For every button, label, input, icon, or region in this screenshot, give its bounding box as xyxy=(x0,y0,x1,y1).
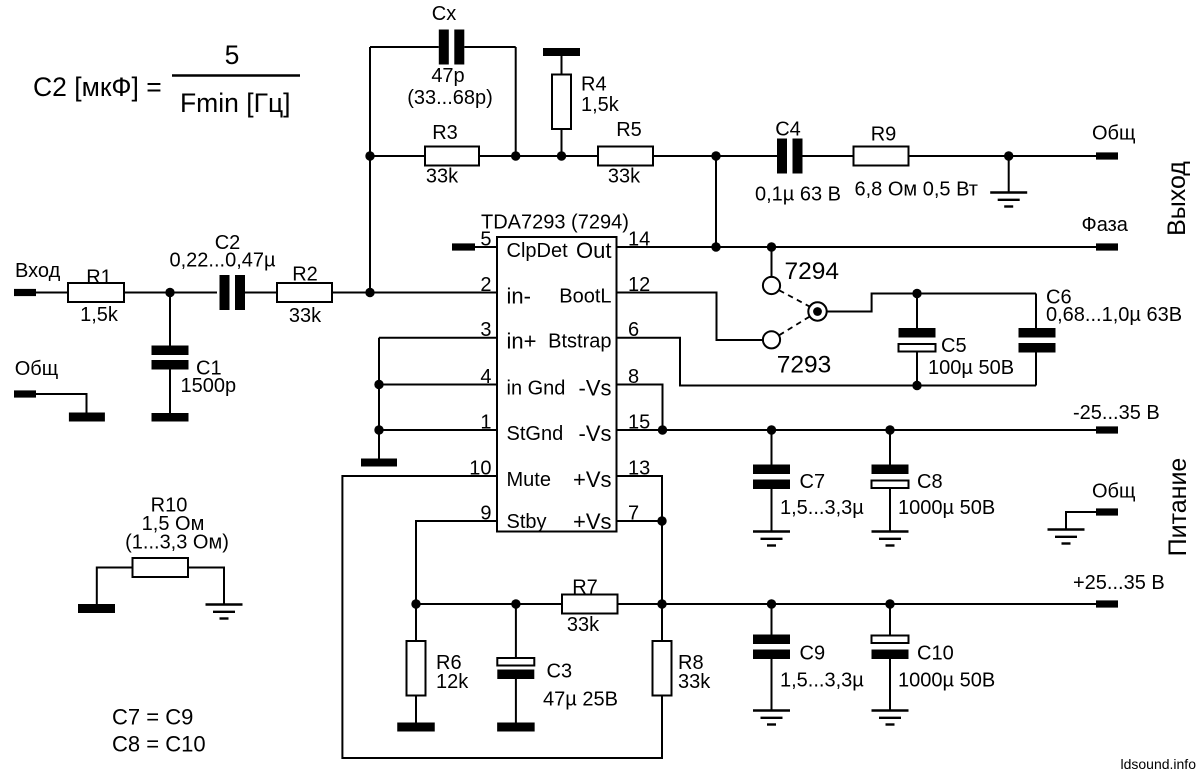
svg-text:1,5k: 1,5k xyxy=(581,94,620,116)
svg-text:1500p: 1500p xyxy=(181,375,237,397)
svg-text:R7: R7 xyxy=(572,577,598,599)
svg-text:33k: 33k xyxy=(426,166,459,188)
svg-text:5: 5 xyxy=(225,40,240,70)
svg-text:Out: Out xyxy=(576,238,611,263)
svg-text:C7: C7 xyxy=(800,471,826,493)
svg-text:1: 1 xyxy=(480,412,491,434)
svg-text:1,5...3,3µ: 1,5...3,3µ xyxy=(780,670,864,692)
svg-text:C10: C10 xyxy=(917,643,954,665)
svg-text:4: 4 xyxy=(480,366,491,388)
svg-text:Fmin [Гц]: Fmin [Гц] xyxy=(180,88,291,118)
svg-text:+25...35 В: +25...35 В xyxy=(1073,572,1165,594)
svg-text:R3: R3 xyxy=(432,122,458,144)
svg-text:R5: R5 xyxy=(616,119,642,141)
svg-text:ldsound.info: ldsound.info xyxy=(1120,756,1196,772)
svg-text:14: 14 xyxy=(628,229,650,251)
svg-text:33k: 33k xyxy=(608,166,641,188)
svg-text:(33...68p): (33...68p) xyxy=(407,87,493,109)
svg-text:Mute: Mute xyxy=(507,469,551,491)
svg-text:C9: C9 xyxy=(800,643,826,665)
svg-text:9: 9 xyxy=(480,503,491,525)
svg-text:6: 6 xyxy=(628,319,639,341)
svg-text:0,68...1,0µ 63В: 0,68...1,0µ 63В xyxy=(1046,304,1182,326)
svg-text:C7 = C9: C7 = C9 xyxy=(112,705,193,730)
svg-text:Btstrap: Btstrap xyxy=(548,331,611,353)
svg-text:R4: R4 xyxy=(581,74,607,96)
svg-text:-25...35 В: -25...35 В xyxy=(1073,402,1160,424)
svg-text:33k: 33k xyxy=(678,671,711,693)
svg-text:(1...3,3 Ом): (1...3,3 Ом) xyxy=(125,532,229,554)
svg-text:StGnd: StGnd xyxy=(507,423,564,445)
svg-text:13: 13 xyxy=(628,458,650,480)
svg-text:2: 2 xyxy=(480,274,491,296)
svg-text:R2: R2 xyxy=(292,264,318,286)
svg-text:Выход: Выход xyxy=(1163,161,1191,236)
svg-text:C4: C4 xyxy=(775,119,801,141)
svg-text:12k: 12k xyxy=(436,671,469,693)
svg-text:ClpDet: ClpDet xyxy=(507,240,569,262)
svg-text:TDA7293 (7294): TDA7293 (7294) xyxy=(481,212,629,234)
svg-text:BootL: BootL xyxy=(559,286,611,308)
svg-text:3: 3 xyxy=(480,319,491,341)
svg-text:33k: 33k xyxy=(289,305,322,327)
svg-text:Stby: Stby xyxy=(507,511,547,533)
svg-text:100µ 50В: 100µ 50В xyxy=(928,357,1014,379)
svg-text:7294: 7294 xyxy=(785,258,840,285)
svg-text:-Vs: -Vs xyxy=(579,376,612,401)
svg-text:Вход: Вход xyxy=(15,260,61,282)
svg-text:47µ 25В: 47µ 25В xyxy=(543,689,618,711)
svg-text:0,1µ 63 В: 0,1µ 63 В xyxy=(755,184,841,206)
svg-text:8: 8 xyxy=(628,366,639,388)
svg-text:1000µ 50В: 1000µ 50В xyxy=(898,670,995,692)
svg-text:47p: 47p xyxy=(431,65,464,87)
svg-text:R1: R1 xyxy=(86,267,112,289)
svg-text:in-: in- xyxy=(507,284,531,309)
svg-text:in Gnd: in Gnd xyxy=(507,378,566,400)
svg-text:Общ: Общ xyxy=(15,358,58,380)
svg-text:1,5...3,3µ: 1,5...3,3µ xyxy=(780,497,864,519)
svg-text:-Vs: -Vs xyxy=(579,421,612,446)
svg-text:10: 10 xyxy=(469,458,491,480)
svg-text:C5: C5 xyxy=(941,335,967,357)
svg-text:R9: R9 xyxy=(871,124,897,146)
svg-text:in+: in+ xyxy=(507,329,537,354)
svg-text:+Vs: +Vs xyxy=(573,467,612,492)
svg-text:Cx: Cx xyxy=(432,3,456,25)
svg-text:1,5k: 1,5k xyxy=(80,304,119,326)
svg-text:Питание: Питание xyxy=(1164,458,1192,557)
svg-text:Общ: Общ xyxy=(1092,481,1135,503)
svg-text:15: 15 xyxy=(628,412,650,434)
svg-text:C3: C3 xyxy=(547,661,573,683)
svg-text:5: 5 xyxy=(480,229,491,251)
svg-text:C2 [мкФ] =: C2 [мкФ] = xyxy=(33,72,162,102)
svg-text:0,22...0,47µ: 0,22...0,47µ xyxy=(169,250,276,272)
svg-text:6,8 Ом 0,5 Вт: 6,8 Ом 0,5 Вт xyxy=(855,179,978,201)
svg-text:+Vs: +Vs xyxy=(573,509,612,534)
svg-text:12: 12 xyxy=(628,274,650,296)
svg-text:33k: 33k xyxy=(567,614,600,636)
svg-text:Общ: Общ xyxy=(1092,123,1135,145)
svg-text:Фаза: Фаза xyxy=(1082,214,1129,236)
svg-text:C8: C8 xyxy=(917,471,943,493)
svg-text:1000µ 50В: 1000µ 50В xyxy=(898,497,995,519)
svg-text:7293: 7293 xyxy=(777,352,832,379)
svg-text:C8 = C10: C8 = C10 xyxy=(112,732,206,757)
svg-text:7: 7 xyxy=(628,503,639,525)
